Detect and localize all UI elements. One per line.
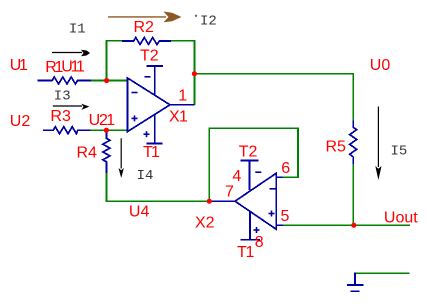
svg-text:T1: T1: [237, 244, 255, 261]
svg-text:U21: U21: [89, 112, 116, 129]
svg-text:I3: I3: [54, 88, 71, 104]
svg-text:U2: U2: [10, 113, 31, 130]
svg-text:R3: R3: [50, 108, 71, 125]
svg-text:U1: U1: [10, 57, 28, 74]
svg-text:I4: I4: [137, 168, 154, 184]
svg-text:1: 1: [178, 88, 187, 105]
svg-text:U0: U0: [370, 57, 391, 74]
svg-text:I1: I1: [69, 22, 86, 38]
svg-text:U4: U4: [129, 204, 150, 221]
svg-text:X2: X2: [195, 215, 215, 232]
svg-text:R4: R4: [77, 145, 98, 162]
svg-text:R2: R2: [134, 19, 155, 36]
svg-text:6: 6: [281, 160, 290, 177]
svg-text:R5: R5: [326, 139, 347, 156]
svg-text:7: 7: [225, 184, 234, 201]
svg-text:4: 4: [232, 168, 241, 185]
svg-text:I2: I2: [200, 14, 217, 30]
svg-text:X1: X1: [169, 109, 188, 126]
svg-text:5: 5: [281, 208, 290, 225]
svg-text:T2: T2: [239, 144, 258, 161]
svg-text:U11: U11: [61, 59, 85, 76]
svg-text:8: 8: [255, 234, 264, 251]
svg-text:T2: T2: [140, 48, 159, 65]
svg-text:T1: T1: [143, 144, 160, 161]
svg-text:I5: I5: [391, 144, 408, 160]
svg-text:Uout: Uout: [384, 210, 418, 227]
